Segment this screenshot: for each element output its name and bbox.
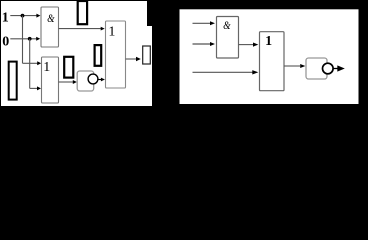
wire right-panel input a [193,22,211,24]
delay element D1 box [77,71,94,91]
arrowhead into U5 pin 1 [253,43,258,47]
arrowhead into U5 pin 2 [252,70,258,74]
empty register box (centre) [64,57,73,78]
arrowhead into U3 pin 1 [37,61,41,65]
OR gate U3 [42,57,59,103]
delay element D1 bubble [88,74,98,84]
wire vertical from input-1 junction [22,16,24,64]
arrowhead into D1 [73,80,77,84]
svg-text:1: 1 [265,34,272,49]
svg-text:0: 0 [2,34,9,49]
svg-text:&: & [47,12,55,25]
arrowhead into U4 pin 2 [210,42,215,46]
arrowhead into output box [136,57,141,61]
left panel (white sheet with black top/left border) [1,0,153,106]
output box (left) [143,46,151,64]
OR gate U2 [106,21,126,88]
wire U2 output [126,58,137,60]
delay element D2 box [306,58,327,79]
wire U5 output to delay D2 [284,65,300,67]
delay element D2 bubble [323,63,334,74]
wire U3 output to delay D1 [59,81,74,83]
wire right-panel input c [193,71,254,73]
wire input-1 horizontal [10,15,37,17]
arrowhead into U1 pin 1 [36,14,40,18]
wire D1 output [98,79,101,81]
wire elbow to U3 pin 1 [23,62,38,64]
junction dot on input-1 [21,14,25,18]
empty register box (far left) [9,62,17,100]
arrowhead into U2 pin 1 [101,27,105,31]
svg-text:1: 1 [43,60,50,75]
arrowhead into U3 pin 2 [37,86,41,90]
OR gate U5 [260,32,285,91]
wire right-panel input b [193,43,211,45]
wire U4 output to U5 [239,44,254,46]
arrowhead into D2 [300,64,305,68]
arrowhead into U4 pin 1 [210,21,215,25]
empty register box (middle) [95,45,102,66]
empty register box (top) [78,1,87,24]
wire D2 output [333,68,338,70]
junction dot on input-0 [28,37,32,41]
svg-text:&: & [223,19,231,32]
wire vertical from input-0 junction [29,39,31,89]
svg-text:1: 1 [108,24,115,39]
right panel (white sheet) [180,9,359,104]
wire input-0 horizontal [10,38,37,40]
arrowhead into U2 pin 3 [101,78,105,82]
wire elbow to U3 pin 2 [30,87,38,89]
wire U1 output to U2 [59,28,102,30]
arrowhead into U1 pin 2 [36,37,40,41]
svg-text:1: 1 [2,10,9,25]
AND gate U4 [217,17,239,59]
AND gate U1 [41,7,59,47]
arrowhead on D2 output [337,65,345,71]
